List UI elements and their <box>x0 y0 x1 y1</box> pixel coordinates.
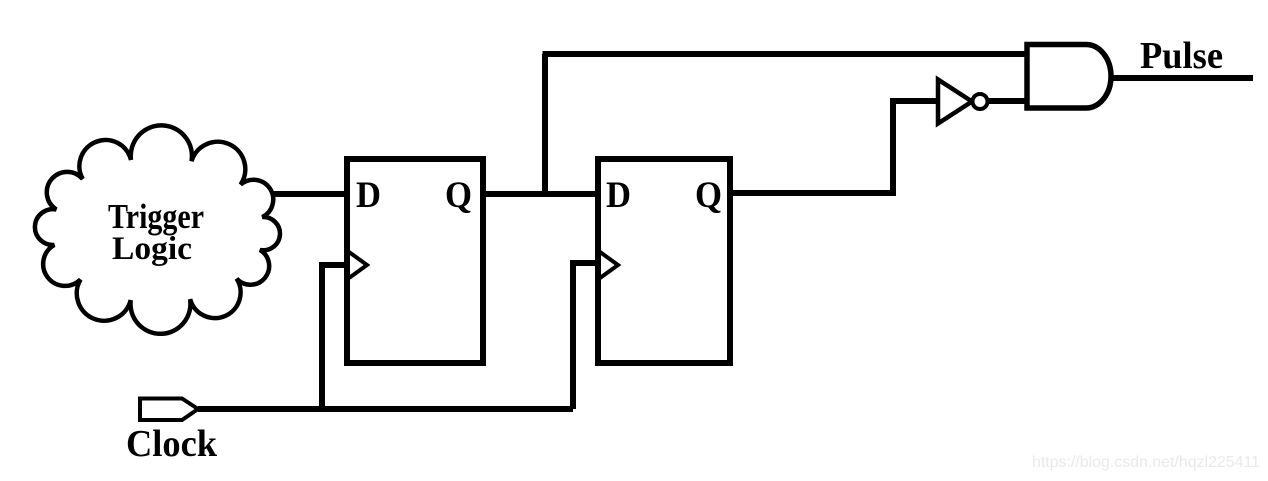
flip-flop U2 box <box>598 159 730 363</box>
wire: Q2 output run <box>730 101 938 193</box>
wire: AND output to Pulse <box>1111 75 1253 81</box>
svg-text:Q: Q <box>445 175 472 216</box>
cloud: Trigger Logic bubble <box>35 125 280 333</box>
wire: clock riser to U1 <box>322 265 347 409</box>
inverter U3 triangle <box>938 80 972 124</box>
svg-text:D: D <box>606 175 631 216</box>
inverter bubble <box>973 94 988 109</box>
svg-text:Pulse: Pulse <box>1140 35 1223 77</box>
wire: top rail to AND gate input A <box>543 51 1030 57</box>
svg-text:https://blog.csdn.net/hqzl2254: https://blog.csdn.net/hqzl225411 <box>1032 454 1260 471</box>
svg-text:Q: Q <box>695 175 722 216</box>
wire: Q1 to D2 <box>483 191 598 197</box>
wire: riser from Q1 net up to top rail <box>542 54 548 194</box>
wire: bubble to AND gate input B <box>988 98 1029 104</box>
clock input triangle U2 <box>600 252 618 278</box>
svg-text:Clock: Clock <box>126 423 218 465</box>
flip-flop U1 box <box>347 159 483 363</box>
clock input pentagon connector <box>140 399 198 421</box>
wire: trigger logic to FF1 D input <box>258 191 347 197</box>
wire: clock line <box>198 406 573 412</box>
svg-text:D: D <box>356 175 381 216</box>
wire: clock riser to U2 <box>573 263 598 409</box>
clock input triangle U1 <box>349 252 367 278</box>
svg-text:Logic: Logic <box>112 231 192 267</box>
AND gate U4 <box>1027 45 1111 109</box>
